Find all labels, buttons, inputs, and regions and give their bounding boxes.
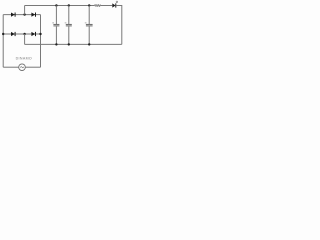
node: C1 bottom xyxy=(55,43,57,45)
node: AC2 junction xyxy=(39,33,41,35)
wire: dynamo left lead xyxy=(3,66,19,68)
capacitor C3 xyxy=(88,6,90,25)
node: bridge + output xyxy=(23,13,25,15)
wire: bridge top row xyxy=(3,14,40,16)
node: bridge - output xyxy=(23,33,25,35)
diode D1 xyxy=(11,13,15,17)
wire: bridge bottom row xyxy=(3,33,40,35)
wire: left AC vertical xyxy=(2,15,4,68)
node: C3 bottom xyxy=(88,43,90,45)
diode D5 xyxy=(112,3,115,7)
wire: - stub down xyxy=(24,34,26,44)
wire: bottom rail xyxy=(25,43,122,45)
wire: top rail xyxy=(25,5,95,7)
node: C1 top xyxy=(55,4,57,6)
node: C3 top xyxy=(88,4,90,6)
diode D2 xyxy=(31,13,35,17)
wire: output to bottom rail xyxy=(116,6,122,45)
wire: right AC vertical xyxy=(40,15,42,68)
wire: dynamo right lead xyxy=(25,66,40,68)
capacitor C1 xyxy=(55,6,57,25)
capacitor C2 xyxy=(68,6,70,25)
node: C2 top xyxy=(68,4,70,6)
node: C2 bottom xyxy=(68,43,70,45)
fuse F1 (squiggle) xyxy=(94,4,101,6)
label: small mark above D5 xyxy=(116,1,118,3)
diode D4 xyxy=(31,32,35,36)
svg-text:DINAMO: DINAMO xyxy=(16,57,32,61)
generator G1 (dynamo) xyxy=(19,64,26,71)
node: AC1 junction xyxy=(2,33,4,35)
diode D3 xyxy=(11,32,15,36)
wire: + stub up xyxy=(24,6,26,15)
wire xyxy=(101,5,112,7)
